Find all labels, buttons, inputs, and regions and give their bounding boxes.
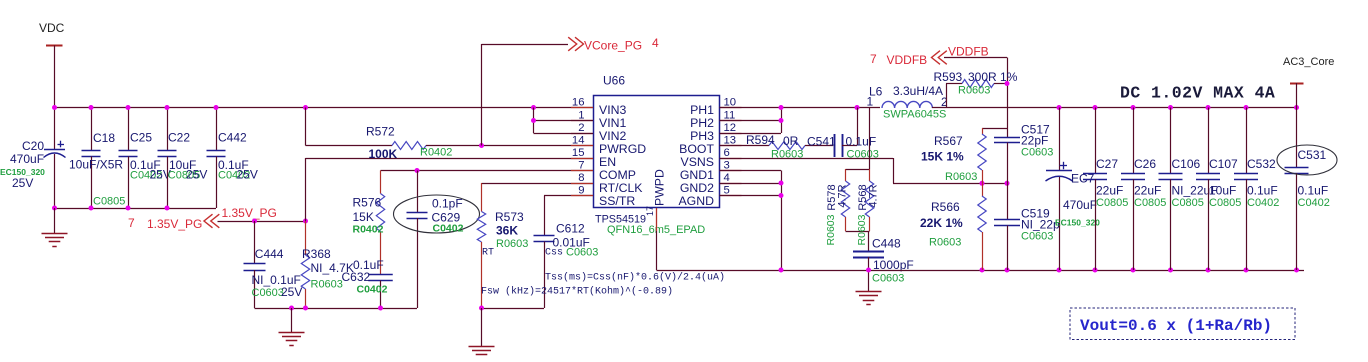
capacitor C27 xyxy=(1083,108,1128,271)
svg-text:C0805: C0805 xyxy=(1134,197,1166,209)
svg-text:25V: 25V xyxy=(281,285,302,299)
svg-text:C0603: C0603 xyxy=(566,247,598,259)
wire PWPD exposed pad xyxy=(657,208,782,271)
svg-text:C0402: C0402 xyxy=(433,223,464,235)
wire feedback divider top xyxy=(982,128,1007,130)
svg-text:R0603: R0603 xyxy=(311,279,343,291)
svg-text:4.7R: 4.7R xyxy=(868,184,880,207)
svg-text:7: 7 xyxy=(578,160,584,172)
capacitor C519 xyxy=(994,183,1060,270)
svg-text:R573: R573 xyxy=(495,210,524,224)
svg-text:300R 1%: 300R 1% xyxy=(968,70,1018,84)
svg-text:R0603: R0603 xyxy=(496,238,528,250)
resistor R594 xyxy=(720,133,834,161)
svg-text:AGND: AGND xyxy=(678,194,714,208)
svg-text:10uF/X5R: 10uF/X5R xyxy=(69,158,123,172)
wire GND pins (3,4,5) xyxy=(720,171,784,271)
capacitor C532 xyxy=(1234,108,1279,271)
svg-text:1: 1 xyxy=(867,95,874,109)
svg-text:C0402: C0402 xyxy=(1247,197,1279,209)
svg-text:12: 12 xyxy=(724,122,737,134)
capacitor C517 xyxy=(994,123,1053,184)
wire VIN bus xyxy=(55,107,594,109)
svg-text:EN: EN xyxy=(599,155,616,169)
capacitor C531 xyxy=(1277,108,1337,271)
svg-text:PWRGD: PWRGD xyxy=(599,142,646,156)
svg-text:22K 1%: 22K 1% xyxy=(920,216,963,230)
svg-text:C18: C18 xyxy=(93,131,115,145)
svg-text:C444: C444 xyxy=(255,247,284,261)
svg-text:10uF: 10uF xyxy=(1209,184,1236,198)
capacitor C106 xyxy=(1159,108,1218,271)
svg-text:2: 2 xyxy=(578,122,584,134)
svg-text:VCore_PG: VCore_PG xyxy=(584,39,642,53)
svg-text:C541: C541 xyxy=(807,135,836,149)
svg-text:25V: 25V xyxy=(12,176,33,190)
svg-text:R0603: R0603 xyxy=(825,214,837,245)
svg-text:PH1: PH1 xyxy=(690,103,714,117)
svg-text:R567: R567 xyxy=(934,134,963,148)
junction dots input ground bus xyxy=(52,206,170,211)
svg-text:1.35V_PG: 1.35V_PG xyxy=(147,217,202,231)
ground (snubber C448) xyxy=(856,270,882,305)
svg-text:VIN1: VIN1 xyxy=(599,116,626,130)
svg-text:PH3: PH3 xyxy=(690,129,714,143)
svg-text:SWPA6045S: SWPA6045S xyxy=(883,109,946,121)
wire Vout xyxy=(932,105,1299,110)
svg-text:R0402: R0402 xyxy=(420,147,452,159)
svg-text:470uF: 470uF xyxy=(10,152,44,166)
svg-text:SS/TR: SS/TR xyxy=(599,194,635,208)
resistor R576 xyxy=(353,171,385,275)
svg-text:C442: C442 xyxy=(218,131,247,145)
ground (center, RT/SS) xyxy=(469,306,495,360)
svg-text:C106: C106 xyxy=(1172,157,1201,171)
svg-text:R572: R572 xyxy=(366,125,395,139)
net label VCore_PG xyxy=(482,36,660,146)
svg-text:0.1pF: 0.1pF xyxy=(432,197,463,211)
svg-text:0.1uF: 0.1uF xyxy=(1298,184,1329,198)
capacitor C25 xyxy=(119,108,171,209)
svg-text:C22: C22 xyxy=(168,131,190,145)
svg-text:C0805: C0805 xyxy=(1209,197,1241,209)
svg-text:17: 17 xyxy=(645,206,655,216)
svg-text:C531: C531 xyxy=(1298,148,1327,162)
wire snubber branch xyxy=(846,108,870,232)
capacitor C26 xyxy=(1121,108,1166,271)
svg-text:8: 8 xyxy=(578,172,584,184)
capacitor C107 xyxy=(1196,108,1241,271)
svg-text:3.3uH/4A: 3.3uH/4A xyxy=(893,84,943,98)
svg-text:C26: C26 xyxy=(1134,157,1156,171)
capacitor C448 xyxy=(853,231,914,285)
pin stubs U66 xyxy=(571,97,742,197)
svg-text:0R: 0R xyxy=(783,134,799,148)
resistor R567 xyxy=(921,128,986,183)
wire ground bus left xyxy=(255,306,418,311)
svg-text:1.35V_PG: 1.35V_PG xyxy=(222,206,277,220)
capacitor C22 xyxy=(158,108,208,209)
svg-text:C20: C20 xyxy=(22,139,44,153)
svg-text:C448: C448 xyxy=(872,237,901,251)
svg-text:U66: U66 xyxy=(603,74,625,88)
svg-text:C0805: C0805 xyxy=(93,196,125,208)
svg-text:470uF: 470uF xyxy=(1063,198,1097,212)
svg-text:C107: C107 xyxy=(1209,157,1238,171)
svg-text:C0603: C0603 xyxy=(1021,147,1053,159)
svg-text:7: 7 xyxy=(128,216,135,230)
svg-text:25V: 25V xyxy=(237,168,258,182)
resistor R593 xyxy=(934,70,1018,108)
svg-text:25V: 25V xyxy=(186,168,207,182)
net label VDDFB xyxy=(870,45,1008,129)
svg-text:VDDFB: VDDFB xyxy=(887,53,928,67)
ground (left bus) xyxy=(279,308,305,346)
svg-text:C0402: C0402 xyxy=(1298,197,1330,209)
svg-text:DC 1.02V MAX 4A: DC 1.02V MAX 4A xyxy=(1120,84,1275,103)
svg-text:BOOT: BOOT xyxy=(679,142,714,156)
junction dots VIN bus xyxy=(52,105,536,110)
text DC rating xyxy=(1120,84,1275,103)
svg-text:C0603: C0603 xyxy=(1021,231,1053,243)
svg-text:C612: C612 xyxy=(556,222,585,236)
svg-text:Vout=0.6 x (1+Ra/Rb): Vout=0.6 x (1+Ra/Rb) xyxy=(1080,317,1272,335)
svg-text:VDC: VDC xyxy=(39,21,65,35)
svg-text:RT: RT xyxy=(482,248,494,259)
svg-text:AC3_Core: AC3_Core xyxy=(1283,56,1334,68)
svg-text:EC150_320: EC150_320 xyxy=(1055,218,1100,228)
svg-text:R566: R566 xyxy=(931,200,960,214)
svg-text:R593: R593 xyxy=(934,70,963,84)
svg-text:R594: R594 xyxy=(746,133,775,147)
power symbol VDC xyxy=(39,21,65,108)
inductor L6 xyxy=(867,84,949,121)
wire 1.35V_PG xyxy=(218,219,309,224)
op-amp/regulator IC U66 TPS54519 xyxy=(594,74,720,237)
svg-text:Css: Css xyxy=(545,248,563,259)
svg-text:RT/CLK: RT/CLK xyxy=(599,181,643,195)
svg-text:15: 15 xyxy=(572,147,585,159)
svg-text:22pF: 22pF xyxy=(1021,134,1048,148)
svg-text:C25: C25 xyxy=(130,131,152,145)
svg-text:R0603: R0603 xyxy=(856,214,868,245)
capacitor C442 xyxy=(207,108,258,209)
svg-text:15K: 15K xyxy=(353,210,374,224)
wire PH node (pins 10-12) xyxy=(720,105,881,134)
svg-text:14: 14 xyxy=(572,135,585,147)
svg-text:R0603: R0603 xyxy=(958,85,990,97)
svg-text:Tss(ms)=Css(nF)*0.6(V)/2.4(uA): Tss(ms)=Css(nF)*0.6(V)/2.4(uA) xyxy=(545,272,725,284)
svg-text:C0603: C0603 xyxy=(872,273,904,285)
svg-text:11: 11 xyxy=(724,110,736,122)
wire EN (pin15 to 1.35V_PG) xyxy=(306,158,594,221)
svg-text:R0603: R0603 xyxy=(945,171,977,183)
svg-text:4: 4 xyxy=(652,36,659,50)
wire ground bus right xyxy=(779,268,1305,273)
capacitor C629 xyxy=(394,171,480,309)
svg-text:1: 1 xyxy=(578,110,584,122)
svg-text:COMP: COMP xyxy=(599,168,636,182)
resistor R572 xyxy=(306,108,594,162)
svg-text:4: 4 xyxy=(724,172,730,184)
svg-text:22uF: 22uF xyxy=(1134,184,1161,198)
svg-text:C632: C632 xyxy=(342,270,371,284)
svg-text:R368: R368 xyxy=(302,247,331,261)
wire COMP (pin7) xyxy=(381,168,594,173)
svg-text:22uF: 22uF xyxy=(1096,184,1123,198)
capacitor C541 xyxy=(807,108,879,161)
svg-text:C27: C27 xyxy=(1096,157,1118,171)
text Tss formula xyxy=(545,272,725,284)
resistor R573 xyxy=(477,183,593,308)
wire VIN1/VIN2 branch xyxy=(531,108,593,134)
svg-text:C0603: C0603 xyxy=(252,287,284,299)
svg-text:9: 9 xyxy=(578,185,584,197)
svg-text:C0402: C0402 xyxy=(357,284,388,296)
resistor R568 xyxy=(856,169,880,245)
svg-text:16: 16 xyxy=(572,97,585,109)
svg-text:VSNS: VSNS xyxy=(681,155,715,169)
svg-text:C0805: C0805 xyxy=(1096,197,1128,209)
svg-text:7: 7 xyxy=(870,52,877,66)
resistor R578 xyxy=(825,169,850,245)
capacitor EC7 xyxy=(1046,108,1101,271)
wire VSNS (pin6) xyxy=(720,158,1010,186)
svg-text:10: 10 xyxy=(724,97,737,109)
resistor R566 xyxy=(920,183,986,270)
wire input ground bus xyxy=(55,208,217,210)
svg-text:4.7R: 4.7R xyxy=(837,184,849,207)
svg-text:6: 6 xyxy=(724,147,730,159)
svg-text:0.1uF: 0.1uF xyxy=(1247,184,1278,198)
svg-text:R0603: R0603 xyxy=(929,237,961,249)
svg-text:C0805: C0805 xyxy=(1172,197,1204,209)
formula box Vout xyxy=(1070,308,1295,340)
svg-text:100K: 100K xyxy=(369,147,398,161)
svg-text:Fsw (kHz)=24517*RT(Kohm)^(-0.8: Fsw (kHz)=24517*RT(Kohm)^(-0.89) xyxy=(481,286,673,298)
svg-text:36K: 36K xyxy=(496,224,518,238)
svg-text:0.1uF: 0.1uF xyxy=(846,135,877,149)
capacitor C632 xyxy=(342,258,393,308)
svg-text:VIN2: VIN2 xyxy=(599,129,626,143)
net label 1.35V_PG xyxy=(128,206,277,231)
svg-text:PWPD: PWPD xyxy=(653,169,667,206)
power symbol AC3_Core xyxy=(1283,56,1334,108)
ground (input bus) xyxy=(42,208,68,247)
svg-text:15K 1%: 15K 1% xyxy=(921,150,964,164)
svg-text:PH2: PH2 xyxy=(690,116,714,130)
svg-text:GND2: GND2 xyxy=(680,181,714,195)
svg-text:VIN3: VIN3 xyxy=(599,103,626,117)
svg-text:VDDFB: VDDFB xyxy=(948,45,989,59)
capacitor C18 xyxy=(69,108,125,209)
text Fsw formula xyxy=(481,286,673,298)
svg-text:C532: C532 xyxy=(1247,157,1276,171)
svg-text:R0402: R0402 xyxy=(353,224,384,236)
capacitor C444 xyxy=(244,221,303,308)
capacitor C20 xyxy=(0,108,66,209)
svg-text:GND1: GND1 xyxy=(680,168,714,182)
resistor R368 xyxy=(301,221,354,308)
svg-text:R576: R576 xyxy=(353,196,382,210)
capacitor C612 xyxy=(482,196,599,309)
